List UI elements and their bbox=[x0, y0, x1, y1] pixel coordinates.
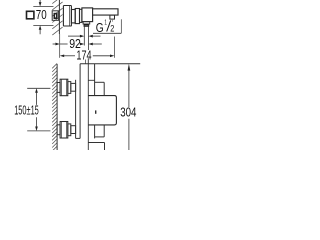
handle outline bottom bbox=[88, 142, 104, 144]
extension line outlet nub center bbox=[113, 37, 115, 58]
leader underline of G half bbox=[93, 32, 121, 34]
spout bbox=[93, 9, 118, 15]
marker dash on spout bbox=[95, 110, 96, 113]
main body left edge (plan view) bbox=[79, 64, 81, 139]
supply fitting top: flange bbox=[57, 83, 60, 93]
supply fitting bottom: step bbox=[68, 124, 71, 136]
dimension square-70 bbox=[33, 0, 53, 34]
spout from above bbox=[88, 96, 116, 125]
back rail (plan view) bbox=[75, 80, 77, 139]
supply fitting top: escutcheon bbox=[60, 79, 68, 96]
dimension 150±15 bbox=[27, 87, 50, 89]
middle step (plan view) bbox=[95, 81, 105, 83]
supply fitting bottom: flange bbox=[57, 125, 60, 135]
wall hatch (side view, top) bbox=[52, 0, 62, 35]
supply fitting bottom: stem bbox=[71, 126, 76, 134]
plate inner edge bbox=[69, 6, 71, 26]
svg-text:2: 2 bbox=[110, 23, 114, 33]
stub under nub bbox=[111, 19, 113, 22]
threaded stem bbox=[84, 24, 89, 26]
supply fitting top: stem bbox=[71, 83, 76, 91]
valve body (side view) bbox=[82, 8, 93, 22]
shaft step 1 bbox=[71, 10, 75, 23]
dimension 174 bbox=[60, 54, 64, 57]
outlet nub under spout bbox=[110, 15, 115, 19]
label square-70 bbox=[27, 11, 34, 18]
projection stubs between views bbox=[85, 60, 87, 64]
escutcheon plate (side view) bbox=[63, 6, 71, 27]
body front edge bbox=[94, 64, 96, 96]
body top edge and 304 tick bbox=[80, 63, 140, 65]
svg-text:70: 70 bbox=[36, 8, 47, 22]
wall line (plan view) bbox=[56, 64, 58, 150]
collar under body bbox=[83, 22, 90, 24]
outlet diameter arrows bbox=[68, 35, 80, 37]
dimension 304 bbox=[128, 64, 131, 71]
neck bbox=[80, 9, 82, 22]
outlet tube below thread bbox=[83, 26, 85, 45]
svg-text:G: G bbox=[96, 20, 104, 35]
supply fitting top: step bbox=[68, 82, 71, 94]
concealed union behind wall bbox=[52, 11, 58, 20]
dimension 92 bbox=[53, 43, 56, 45]
svg-text:1: 1 bbox=[104, 18, 107, 27]
wall line (side view) with dimension extension below bbox=[58, 0, 60, 34]
svg-text:304: 304 bbox=[120, 106, 136, 120]
shaft step 2 bbox=[75, 9, 79, 24]
supply fitting bottom: escutcheon bbox=[60, 122, 68, 139]
hidden edge bbox=[88, 79, 94, 81]
svg-text:174: 174 bbox=[76, 49, 91, 63]
body internal edge bbox=[87, 58, 89, 150]
wall hatch (plan view, bottom) bbox=[52, 63, 57, 151]
svg-text:150±15: 150±15 bbox=[14, 103, 39, 117]
